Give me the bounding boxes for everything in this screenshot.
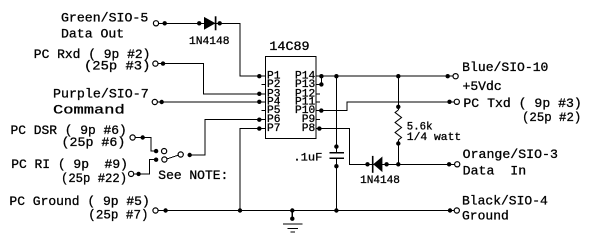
- terminal Orange/SIO-3: [455, 162, 460, 167]
- svg-text:.1uF: .1uF: [293, 153, 322, 165]
- terminal Black/SIO-4: [454, 208, 459, 213]
- node dot D2 cathode lead: [365, 162, 369, 166]
- terminal PC RI: [129, 171, 134, 176]
- wire switch blade: [167, 155, 178, 159]
- node dot txd terminal: [447, 100, 451, 104]
- svg-text:PC RI ( 9p #9): PC RI ( 9p #9): [11, 157, 128, 172]
- svg-text:Ground: Ground: [462, 209, 509, 224]
- node dot dsr terminal: [141, 135, 145, 139]
- node dot switch common: [188, 153, 192, 157]
- node dot cap top lead: [334, 144, 338, 148]
- node dot resistor bottom lead: [396, 141, 400, 145]
- wire capacitor branch lower: [335, 158, 337, 210]
- node dot gnd terminal left: [163, 208, 167, 212]
- bare stub P9: [316, 119, 320, 121]
- node dot resistor data junction: [396, 162, 400, 166]
- svg-text:Green/SIO-5: Green/SIO-5: [61, 11, 148, 26]
- terminal PC DSR: [130, 135, 135, 140]
- op IC U1 14C89 body: [266, 57, 316, 139]
- open terminals: [129, 21, 460, 213]
- node dot throw A: [154, 149, 158, 153]
- node dot P4: [257, 100, 261, 104]
- svg-text:P8: P8: [302, 123, 315, 135]
- svg-text:+5Vdc: +5Vdc: [463, 79, 502, 94]
- terminal Purple/SIO-7: [152, 99, 157, 104]
- wire PC Rxd to P3: [158, 64, 266, 94]
- node dot purple terminal: [160, 100, 164, 104]
- node dot orange terminal: [447, 162, 451, 166]
- switch contact A: [162, 149, 167, 154]
- node dot throw B: [154, 158, 158, 162]
- bare stub P2: [262, 83, 266, 85]
- resistor R1 5.6k zigzag: [395, 110, 401, 140]
- svg-text:Data Out: Data Out: [61, 27, 124, 42]
- node dot black terminal: [448, 208, 452, 212]
- terminal PC Txd: [454, 99, 459, 104]
- node dot P3: [257, 92, 261, 96]
- wire +5V rail P14 to Blue/SIO-10: [316, 75, 453, 77]
- svg-text:14C89: 14C89: [269, 39, 309, 54]
- node dot green terminal: [163, 21, 167, 25]
- node dot gnd symbol stem: [290, 217, 294, 221]
- diode D1 1N4148 (Green line): [204, 16, 216, 30]
- wire PC RI to switch throw B: [134, 160, 157, 174]
- node dot gnd symbol rail: [290, 208, 294, 212]
- node dot cap bottom lead: [334, 164, 338, 168]
- bare stub P12: [316, 93, 320, 95]
- node dot P13: [319, 82, 323, 86]
- bare stub P11: [316, 101, 320, 103]
- node dot P8: [317, 126, 321, 130]
- node dot cap rail junction: [334, 208, 338, 212]
- svg-text:Orange/SIO-3: Orange/SIO-3: [463, 147, 558, 162]
- node dot ri terminal: [136, 172, 140, 176]
- node dot P10: [319, 108, 323, 112]
- node dot P6: [257, 118, 261, 122]
- node dot D1 cathode: [218, 21, 222, 25]
- node dot rxd terminal: [161, 61, 165, 65]
- svg-text:See NOTE:: See NOTE:: [158, 168, 228, 183]
- svg-text:(25p #7): (25p #7): [88, 208, 148, 223]
- node dot resistor rail junction: [396, 74, 400, 78]
- wire P8 to Data In line: [316, 129, 455, 165]
- svg-text:PC Txd ( 9p #3): PC Txd ( 9p #3): [463, 96, 581, 111]
- wire P7 to ground rail: [240, 129, 266, 211]
- svg-text:1N4148: 1N4148: [189, 36, 230, 48]
- svg-text:(25p #3): (25p #3): [84, 59, 150, 74]
- svg-text:Black/SIO-4: Black/SIO-4: [462, 194, 548, 209]
- bare stub P5: [262, 110, 266, 112]
- svg-text:Purple/SIO-7: Purple/SIO-7: [53, 87, 149, 102]
- svg-text:(25p #2): (25p #2): [522, 110, 581, 125]
- wire Green/SIO-5 to P1: [158, 23, 266, 76]
- wire P10 to PC Txd: [316, 102, 455, 111]
- svg-text:Blue/SIO-10: Blue/SIO-10: [462, 60, 548, 75]
- terminal PC Ground: [153, 208, 158, 213]
- wire Purple/SIO-7 to P4: [157, 101, 266, 103]
- switch contact B: [162, 157, 167, 162]
- wire capacitor branch upper: [335, 76, 337, 153]
- node dot D2 anode lead: [384, 162, 388, 166]
- terminal Green/SIO-5: [153, 21, 158, 26]
- wire P13 jumper to P14: [316, 76, 322, 84]
- terminal PC Rxd: [153, 61, 158, 66]
- node dot P7: [257, 126, 261, 130]
- svg-text:1N4148: 1N4148: [360, 175, 400, 187]
- node dot resistor top lead: [396, 105, 400, 109]
- wire PC DSR to switch throw A: [135, 138, 156, 152]
- node dot P14: [319, 74, 323, 78]
- node dot cap top rail junction: [334, 74, 338, 78]
- svg-text:(25p #6): (25p #6): [62, 135, 126, 150]
- wire resistor branch lower: [397, 140, 399, 164]
- wire resistor branch upper: [397, 76, 399, 110]
- node dot P1: [257, 74, 261, 78]
- wire switch common to P6: [190, 120, 266, 155]
- svg-text:Command: Command: [53, 102, 125, 117]
- node dot D1 anode: [197, 21, 201, 25]
- switch common contact: [178, 152, 183, 157]
- svg-text:(25p #22): (25p #22): [61, 171, 127, 186]
- terminal Blue/SIO-10: [453, 74, 458, 79]
- diode D2 1N4148 (Data In line): [373, 156, 383, 173]
- ground symbol: [283, 211, 302, 233]
- svg-text:P7: P7: [267, 123, 280, 135]
- wire ground rail: [158, 210, 454, 212]
- node dot blue terminal: [446, 74, 450, 78]
- svg-text:Data In: Data In: [463, 164, 527, 179]
- capacitor C1 .1uF plates: [330, 153, 345, 158]
- svg-text:1/4 watt: 1/4 watt: [407, 132, 461, 144]
- node dot P7 rail junction: [238, 208, 242, 212]
